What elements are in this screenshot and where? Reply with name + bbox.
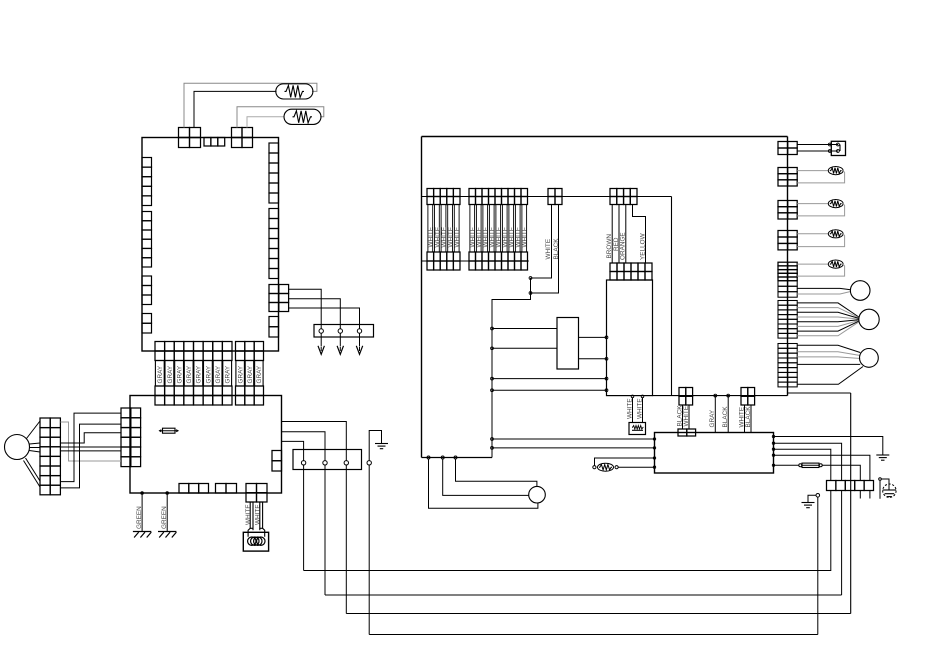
wire GRAY to D <box>714 396 716 433</box>
connector block A bottom right <box>236 342 264 361</box>
junction dot <box>141 492 144 495</box>
svg-text:BLACK: BLACK <box>722 406 729 428</box>
terminal circle <box>303 450 305 461</box>
manifold line under white ribbons <box>422 260 529 262</box>
wire WHITE from K3 <box>744 405 746 433</box>
connector block C4b <box>610 263 652 280</box>
svg-text:GRAY: GRAY <box>196 365 203 383</box>
connector pins A left column <box>142 158 152 206</box>
resistor R1 <box>276 84 313 99</box>
svg-text:GRAY: GRAY <box>167 365 174 383</box>
wire J2 to resistor R2 right end <box>237 107 324 128</box>
wire WHITE from C3 <box>531 205 552 279</box>
output arrow <box>359 333 361 346</box>
wire M to CN1 <box>30 447 41 449</box>
wire WHITE from K2 <box>688 405 690 429</box>
svg-text:GRAY: GRAY <box>215 365 222 383</box>
svg-text:WHITE: WHITE <box>245 504 252 525</box>
svg-text:GRAY: GRAY <box>247 365 254 383</box>
wire BLACK from K3 <box>750 405 752 433</box>
svg-text:YELLOW: YELLOW <box>639 232 646 260</box>
wire CN1 to B <box>61 424 122 488</box>
connector R6 on C right edge <box>778 281 797 297</box>
svg-text:WHITE: WHITE <box>637 398 644 419</box>
wire D out 4 <box>774 455 870 480</box>
wire lamp return <box>797 204 844 216</box>
module D outline <box>655 433 774 474</box>
wire to pump bottom <box>429 459 538 508</box>
wire D out to ground <box>774 437 883 456</box>
connector block C3 on bus <box>548 189 562 205</box>
wire terminal2 down <box>324 465 326 595</box>
svg-text:GRAY: GRAY <box>177 365 184 383</box>
connector R2 on C right edge <box>778 168 797 187</box>
wire B to strip terminal 2 <box>282 432 326 450</box>
junction dot <box>166 492 169 495</box>
wire to pump left <box>443 459 529 495</box>
svg-text:GRAY: GRAY <box>225 365 232 383</box>
wire YELLOW from C4 <box>633 205 646 264</box>
terminal circle <box>319 329 323 333</box>
wire T4 to ground <box>369 431 381 461</box>
ground G3 <box>375 443 388 445</box>
connector R7 on C right edge <box>778 301 797 339</box>
wire to pump top <box>456 459 537 487</box>
motor M <box>5 435 30 460</box>
wire D to resistor R4 <box>595 458 655 466</box>
wire to lamp L2 housing <box>797 144 838 146</box>
unit C top edge <box>422 136 788 138</box>
junction <box>529 277 532 280</box>
wire riser to K1 <box>492 347 557 349</box>
wire to sensor S1 <box>797 288 850 289</box>
wire to lamp L6 <box>797 263 828 265</box>
wire fuse to strip <box>822 465 860 480</box>
wire terminal3 down <box>345 465 347 614</box>
svg-text:GRAY: GRAY <box>205 365 212 383</box>
wire bottom to sensor S3 <box>797 367 863 385</box>
wire K1 to C5 <box>579 336 607 338</box>
wire D out 3 <box>774 449 831 480</box>
svg-text:BLACK: BLACK <box>745 406 752 428</box>
wire M to CN1 <box>29 451 40 453</box>
wire GREEN 1 <box>141 493 143 532</box>
connector block B top right <box>236 386 264 405</box>
sensor S2 <box>859 309 879 329</box>
svg-text:GRAY: GRAY <box>186 365 193 383</box>
module B outline <box>130 396 282 494</box>
chassis ground symbol <box>879 478 882 481</box>
terminal strip X1 <box>314 325 374 338</box>
resistor R2 <box>284 109 321 124</box>
wire J3 pin3 to terminal strip <box>289 308 360 329</box>
connector pins A right column <box>269 143 279 203</box>
wire riser to C5 <box>492 389 607 391</box>
wire J2 to resistor R2 left end <box>247 117 285 128</box>
wire WHITE from C5 <box>641 395 644 398</box>
terminal circle <box>324 450 326 461</box>
terminal circle <box>345 450 347 461</box>
svg-text:ORANGE: ORANGE <box>620 232 627 260</box>
connector pins B right edge <box>272 451 282 472</box>
connector R4 on C right edge <box>778 231 797 250</box>
terminal circle <box>338 329 342 333</box>
svg-text:GREEN: GREEN <box>161 506 168 529</box>
ground G2 hatch <box>158 531 176 533</box>
wire D out 2 <box>774 443 842 480</box>
connector J3 on A right edge <box>269 285 289 312</box>
wire CN1 to B <box>61 433 122 443</box>
connector block C2 on bus <box>469 189 528 205</box>
wire M to CN1 <box>27 421 41 439</box>
control unit A outline <box>142 138 279 352</box>
wire B to strip terminal 1 <box>282 441 304 449</box>
lamp L4 <box>828 200 843 208</box>
wire to fuse strip drop <box>788 392 851 394</box>
bus wire 4 <box>369 634 818 636</box>
wire to lamp L5 <box>797 233 828 235</box>
connector pins B bottom row2 <box>216 484 237 494</box>
svg-text:GRAY: GRAY <box>256 365 263 383</box>
wire BLACK to D <box>727 396 729 433</box>
wire B to strip terminal 3 <box>282 422 347 450</box>
wire GREEN 2 <box>166 493 168 532</box>
wire M to CN1 <box>26 458 41 481</box>
wire ORANGE from C4 <box>625 205 627 264</box>
connector R8 on C right edge <box>778 344 797 387</box>
output arrow <box>339 333 341 346</box>
wires to sensor S2 <box>797 303 859 317</box>
connector block A bottom left <box>155 342 232 361</box>
ignition coil L1 <box>243 532 268 551</box>
svg-text:GREEN: GREEN <box>136 506 143 529</box>
wires to sensor S3 <box>797 345 860 352</box>
connector R3 on C right edge <box>778 201 797 220</box>
connector R1 on C right edge <box>778 142 797 155</box>
terminal circle T4 <box>367 461 371 465</box>
connector block B top left <box>155 386 232 405</box>
heater element R3 <box>629 423 646 435</box>
bus wire 1 <box>304 491 831 571</box>
wire CN1 to B gray <box>61 422 122 461</box>
sensor S1 <box>850 281 870 301</box>
svg-text:WHITE: WHITE <box>627 398 634 419</box>
bus wire 2 <box>325 594 842 596</box>
wire CN1 to B <box>61 446 122 448</box>
connector pins B bottom row1 <box>179 484 209 494</box>
wire M to CN1 <box>30 443 41 444</box>
connector K2 above D <box>679 388 693 406</box>
wire CN1 to B <box>61 450 122 452</box>
lamp L6 <box>828 260 843 268</box>
svg-text:GRAY: GRAY <box>238 365 245 383</box>
wire terminal4 down <box>368 465 370 635</box>
svg-text:WHITE: WHITE <box>522 227 529 248</box>
unit C right edge <box>787 137 789 396</box>
wire M to CN1 <box>24 461 41 488</box>
svg-text:WHITE: WHITE <box>254 504 261 525</box>
svg-text:GRAY: GRAY <box>709 409 716 427</box>
ground G5 with terminal <box>816 494 820 498</box>
fuse strip X3 <box>827 481 874 491</box>
wire strip stub <box>869 491 871 499</box>
unit C left edge <box>421 137 423 458</box>
wire G5 terminal down <box>817 497 819 634</box>
sub-unit box C5 <box>607 280 653 396</box>
connector J1 on A top edge <box>179 128 201 148</box>
wire to lamp L4 <box>797 203 828 205</box>
connector pins A top middle <box>204 138 225 147</box>
wire J3 pin1 to terminal strip <box>289 289 322 329</box>
wire lamp return <box>797 234 844 247</box>
relay K1 box <box>557 318 579 370</box>
wire riser to module D <box>492 438 655 440</box>
connector block C1 on bus <box>427 189 460 205</box>
connector CN2 on B bottom edge <box>246 484 267 503</box>
wire resistor R4 to D <box>618 466 654 468</box>
wire to lamp L3 <box>797 170 828 172</box>
connector R5 on C right edge <box>778 262 797 281</box>
svg-text:GRAY: GRAY <box>157 365 164 383</box>
unit C bottom-left edge <box>422 457 493 459</box>
fuse F2 <box>799 464 802 467</box>
harness GRAY wires A to B <box>155 361 263 387</box>
sensor S3 <box>860 349 879 368</box>
terminal circle <box>357 329 361 333</box>
wire WHITE from C5 <box>631 395 634 398</box>
wire CN1 to B <box>61 413 122 482</box>
wire C3 drop to riser <box>492 278 531 458</box>
svg-text:WHITE: WHITE <box>545 239 552 260</box>
wire J3 pin2 to terminal strip <box>289 299 341 329</box>
wire lamp return <box>797 264 844 276</box>
ground G1 hatch <box>133 531 151 533</box>
wire BLACK from C3 <box>531 205 559 294</box>
wire BROWN from C4 <box>611 205 613 264</box>
fuse strip X2 <box>293 450 362 470</box>
wire drop to bottom bus <box>850 393 852 614</box>
wire strip stub <box>859 491 861 499</box>
junction on C bottom edge <box>427 456 430 459</box>
lamp L5 <box>828 230 843 238</box>
wire D out 5 through fuse F2 <box>774 464 800 466</box>
wire WHITE pair to coil <box>250 502 253 528</box>
indicator lamp L2 housing <box>831 141 845 155</box>
wire bus to lower-right <box>671 197 673 396</box>
connector pins B left edge <box>121 408 141 467</box>
wire J1 to resistor R1 right end <box>184 83 317 127</box>
lamp L3 <box>828 167 843 175</box>
wire terminal1 down <box>303 465 305 571</box>
ground G4 <box>876 454 889 456</box>
wire RED from C4 <box>618 205 620 264</box>
connector on D top edge <box>678 429 696 436</box>
wire riser to K1 <box>492 328 557 330</box>
svg-text:BLACK: BLACK <box>553 238 560 260</box>
bus wire 3 <box>346 613 850 615</box>
harness WHITE ribbons C1 <box>428 205 527 253</box>
svg-text:WHITE: WHITE <box>454 227 461 248</box>
wire K1 to C5 <box>579 358 607 360</box>
output arrow <box>320 333 322 346</box>
fuse F1 inside B <box>163 428 176 433</box>
wire to sensor S1 <box>797 292 850 295</box>
pump P1 <box>529 486 546 503</box>
wire strip down <box>841 491 843 596</box>
bus wire inside C <box>422 196 672 198</box>
wire across lower edge <box>653 395 788 397</box>
svg-text:WHITE: WHITE <box>683 406 690 427</box>
connector J2 on A top edge <box>232 128 253 148</box>
resistor R4 <box>593 466 596 469</box>
connector CN1 left of B <box>40 418 60 495</box>
connector block C1b <box>427 252 460 270</box>
wire riser to C5 <box>492 378 607 380</box>
wire J1 to resistor R1 left end <box>194 91 277 127</box>
connector K3 above D <box>741 388 755 406</box>
wire riser to module D <box>492 447 655 449</box>
connector block C2b <box>469 252 528 270</box>
wire lamp return <box>797 171 844 183</box>
wire BLACK from K2 <box>682 405 684 429</box>
connector block C4 on bus <box>610 189 637 205</box>
